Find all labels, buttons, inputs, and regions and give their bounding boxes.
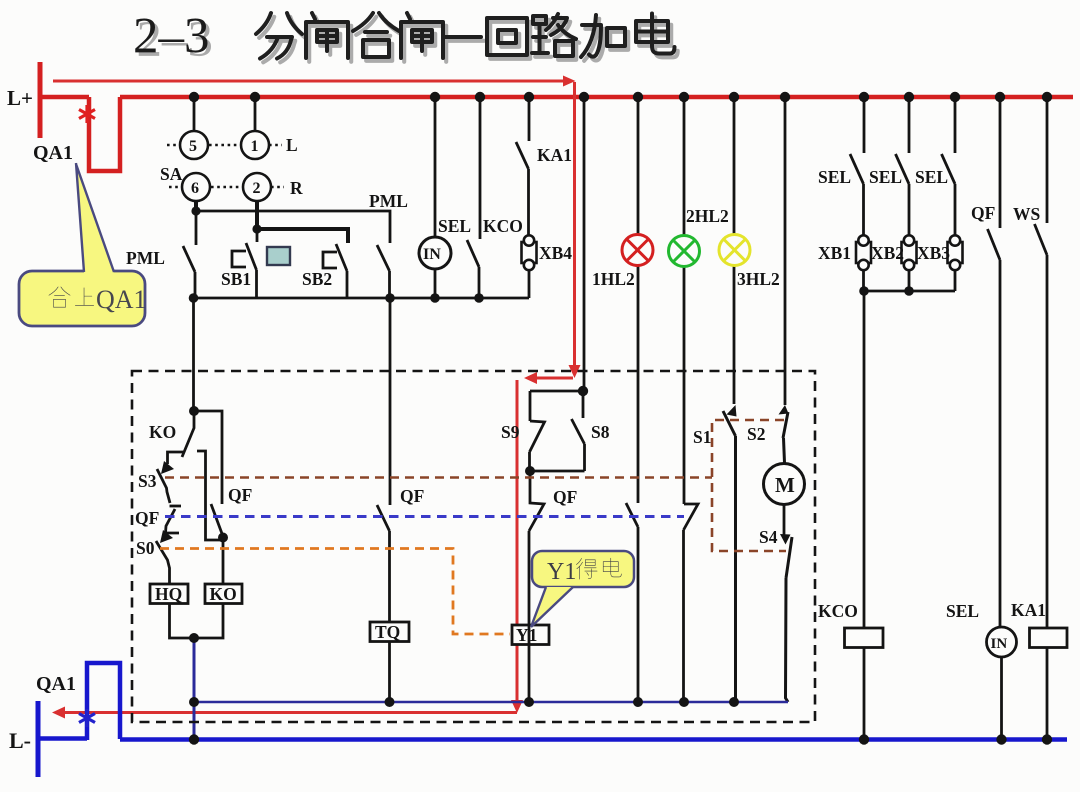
contact QF on 1HL2 branch — [626, 503, 638, 702]
wire red vertical drop x=517 — [516, 380, 519, 700]
breaker QA1 top (open-detour in L+ bus) — [89, 97, 120, 171]
svg-text:QF: QF — [135, 508, 159, 528]
svg-text:L+: L+ — [7, 86, 33, 110]
svg-text:SEL: SEL — [915, 167, 948, 187]
arrowhead S3 latch — [161, 461, 174, 474]
wire L+ red bus left segment — [40, 95, 89, 100]
wire L- blue bus main — [120, 737, 1067, 742]
node dot S9/S8 split — [578, 386, 588, 396]
title text 2-3 (solid with gray shadow) — [133, 9, 213, 69]
wire S2/M branch x=785 — [784, 97, 787, 405]
contact SEL row2 blade — [896, 154, 910, 236]
wire PML1 branch down into box x=194 — [192, 298, 195, 411]
svg-text:S8: S8 — [591, 422, 610, 442]
lamp 1HL2 (red) — [622, 235, 653, 266]
coil KCO — [845, 628, 884, 648]
node dots XB join y=291 — [859, 286, 869, 296]
svg-text:PML: PML — [369, 191, 408, 211]
pushbutton SB2 actuator — [323, 252, 337, 268]
svg-text:SEL: SEL — [946, 601, 979, 621]
svg-text:SB2: SB2 — [302, 269, 332, 289]
svg-text:1: 1 — [251, 138, 259, 155]
svg-text:SEL: SEL — [818, 167, 851, 187]
indicator block (teal) — [267, 247, 290, 265]
contact SB2 blade and leads — [336, 244, 347, 298]
contact QF-NO blade — [211, 504, 223, 538]
wire Y1 bottom lead — [528, 644, 531, 702]
contact SEL row1 blade — [850, 154, 864, 236]
QF fixed bar left chain — [170, 505, 182, 508]
node dot SA6 — [191, 206, 200, 215]
dashed mechanism frame (black) — [132, 371, 815, 722]
svg-text:S3: S3 — [138, 471, 157, 491]
wire SEL row lead 3 — [954, 97, 957, 153]
svg-text:S2: S2 — [747, 424, 765, 444]
svg-text:KO: KO — [149, 422, 176, 442]
contact QF middle zigzag — [529, 471, 544, 625]
contact S3 blade — [157, 469, 170, 503]
wire S8/S9 join y=471 — [530, 470, 585, 473]
svg-text:QF: QF — [553, 487, 577, 507]
wire control bottom bus y=298 — [193, 297, 529, 300]
wire M to S4 lead — [783, 505, 786, 535]
dot leaders SA row2 — [169, 186, 284, 189]
svg-text:HQ: HQ — [155, 584, 182, 604]
contact S1 blade — [723, 411, 736, 702]
svg-text:S4: S4 — [759, 527, 778, 547]
wire branch S9/S8 feeder x=584 — [583, 97, 586, 390]
wire KO coil top lead — [222, 538, 225, 585]
wire SA circle6 bottom lead — [194, 201, 198, 211]
contact S9 zigzag — [530, 421, 545, 471]
svg-text:QA1: QA1 — [36, 673, 76, 695]
callout balloon he-shang-QA1 — [19, 163, 147, 326]
svg-text:2: 2 — [253, 180, 261, 197]
contact PML left blade — [183, 211, 196, 298]
contact PML right blade — [377, 245, 390, 298]
contact SEL1 blade and leads — [467, 97, 480, 298]
svg-text:R: R — [290, 178, 303, 198]
node dots control bus y=298 — [189, 293, 199, 303]
contact QF on TQ branch — [377, 505, 390, 622]
svg-text:KO: KO — [210, 584, 237, 604]
wire XB1 bottom lead — [862, 269, 865, 291]
selector SA contact 2 — [243, 173, 271, 201]
svg-text:KCO: KCO — [483, 216, 523, 236]
wire L- lead — [38, 736, 87, 741]
breaker QA1 bottom (open-detour in L- bus) — [87, 663, 120, 740]
wire red short leftward y=378 — [534, 377, 573, 380]
wire HQ bottom lead — [170, 603, 195, 638]
connector XB4 — [522, 235, 537, 270]
svg-text:QF: QF — [400, 486, 424, 506]
svg-text:QF: QF — [971, 203, 995, 223]
contact QF zigzag on 2HL2 branch — [684, 504, 699, 702]
wire IN1 meter lead from bus — [434, 97, 437, 298]
node dots L- bus — [189, 734, 199, 744]
coil TQ — [370, 622, 409, 642]
wire red return line y=712.5 — [63, 711, 517, 714]
wire SA circle2 bottom lead — [255, 201, 259, 229]
node dot KO coil top — [218, 533, 228, 543]
svg-text:KCO: KCO — [818, 601, 858, 621]
dashed link brown y=477.5 — [165, 476, 712, 479]
wire SEL row lead 1 — [863, 97, 866, 153]
arrowhead red right at x=574 — [563, 76, 576, 87]
wire red energize path top (thin) — [53, 80, 564, 83]
wire L+ terminal bar — [38, 62, 43, 138]
svg-text:SB1: SB1 — [221, 269, 251, 289]
S3 fixed bar with arrowhead stem — [168, 452, 184, 464]
wire red vertical drop x=574.5 — [573, 82, 576, 366]
node dots on L+ bus — [189, 92, 199, 102]
arrowhead red left at (524,378) — [524, 372, 537, 384]
contact QF left chain blade — [166, 509, 176, 533]
contact S0 blade — [156, 541, 170, 584]
wire XB2 bottom lead — [908, 269, 911, 291]
svg-text:Y1: Y1 — [516, 625, 537, 645]
svg-text:Y1: Y1 — [547, 559, 576, 585]
contact S4 blade — [786, 537, 793, 702]
wire SEL row lead 2 — [908, 97, 911, 153]
wire TQ branch x=389.5 — [389, 298, 392, 505]
svg-text:WS: WS — [1013, 204, 1040, 224]
dashed brown subframe around S1 S2 M S4 — [712, 420, 786, 551]
wire KCO coil feeder x=864 — [863, 291, 866, 740]
arrowhead S2 — [779, 405, 789, 415]
svg-text:2–3: 2–3 — [133, 9, 210, 65]
wire IN2 bottom lead — [1000, 657, 1003, 740]
svg-text:IN: IN — [423, 246, 441, 263]
svg-text:SA: SA — [160, 164, 183, 184]
svg-text:6: 6 — [191, 180, 199, 197]
svg-text:3HL2: 3HL2 — [737, 269, 780, 289]
wire XB4 bottom lead — [528, 271, 531, 298]
arrowhead red down at y=375 — [569, 365, 581, 378]
node dot SB branch — [252, 224, 261, 233]
svg-text:QF: QF — [228, 485, 252, 505]
selector SA contact 6 — [182, 173, 210, 201]
connector XB2 — [902, 235, 917, 270]
wire navy collector y=702 — [194, 701, 788, 704]
dashed link blue y=516.5 — [165, 515, 684, 518]
wire lamp 3HL2 branch x=734 — [733, 97, 736, 404]
S0 fixed bar — [166, 533, 179, 536]
wire QF-NO branch top — [194, 411, 222, 504]
selector SA contact 1 — [241, 131, 269, 159]
svg-text:S9: S9 — [501, 422, 520, 442]
node dot HQ/KO join — [189, 633, 199, 643]
arrowhead S0 latch — [160, 530, 173, 543]
wire SA circle1 lead — [254, 97, 257, 131]
svg-text:XB2: XB2 — [871, 243, 904, 263]
svg-text:TQ: TQ — [375, 622, 400, 642]
arrowhead red down at (517,710) — [511, 700, 523, 713]
svg-text:QA1: QA1 — [96, 285, 147, 314]
svg-text:2HL2: 2HL2 — [686, 206, 729, 226]
asterisk red on QA1 top — [79, 105, 95, 123]
arrowhead S4 — [780, 534, 791, 545]
wire XB3 bottom lead — [954, 269, 957, 291]
title CJK fen-zha-he-zha-hui-lu-jia-dian (solid strokes with gray shadow) — [256, 13, 678, 62]
connector XB3 — [948, 235, 963, 270]
wire WS branch x=1047 — [1046, 97, 1049, 223]
contact QF right blade — [988, 229, 1001, 627]
svg-text:PML: PML — [126, 248, 165, 268]
node dots navy collector — [189, 697, 199, 707]
svg-text:S1: S1 — [693, 427, 711, 447]
motor M — [764, 464, 805, 505]
svg-text:XB3: XB3 — [917, 243, 950, 263]
contact KO blade — [182, 411, 194, 457]
wire L+ red bus main — [120, 95, 1073, 100]
svg-text:L-: L- — [9, 728, 31, 753]
coil Y1 — [512, 625, 549, 645]
wire XB join bus y=291 — [864, 290, 955, 293]
svg-text:S0: S0 — [136, 538, 155, 558]
arrowhead S1 — [727, 405, 737, 417]
wire SA circle5 lead — [193, 97, 196, 131]
coil KO — [205, 584, 242, 604]
contact S8 blade — [572, 419, 585, 471]
wire SB branch thick y=229 — [257, 229, 348, 243]
contact SEL row3 blade — [942, 154, 956, 236]
coil KA1 — [1030, 628, 1068, 648]
selector SA contact 5 — [180, 131, 208, 159]
wire horizontal row y=211 to PML2 — [196, 211, 390, 243]
node dot S9 join — [525, 466, 535, 476]
wire middle branch x=205.5 — [197, 451, 223, 540]
svg-text:SEL: SEL — [869, 167, 902, 187]
wire KO-coil bottom lead — [194, 603, 223, 638]
svg-text:QA1: QA1 — [33, 142, 73, 164]
svg-text:1HL2: 1HL2 — [592, 269, 635, 289]
wire lamp 2HL2 branch x=684 — [683, 97, 686, 504]
wire TQ bottom lead — [388, 641, 391, 702]
lamp 3HL2 (yellow) — [719, 235, 750, 266]
dashed link orange S0 to Y1 — [160, 549, 510, 635]
svg-text:M: M — [775, 473, 795, 497]
arrowhead red left at (53,712.5) — [52, 707, 65, 719]
pushbutton SB1 actuator — [232, 251, 246, 267]
contact WS blade — [1035, 224, 1048, 628]
svg-text:IN: IN — [991, 636, 1008, 652]
wire through Y1 coil — [528, 625, 531, 644]
svg-text:KA1: KA1 — [1011, 600, 1046, 620]
wire navy drop from coils x=194 — [193, 638, 196, 740]
connector XB1 — [856, 235, 871, 270]
asterisk blue on QA1 bottom — [79, 709, 95, 727]
wire lamp 1HL2 branch x=638 — [637, 97, 640, 503]
svg-text:L: L — [286, 135, 298, 155]
callout balloon Y1-de-dian — [531, 551, 634, 627]
meter IN1 — [419, 237, 451, 269]
lamp 2HL2 (green) — [669, 236, 700, 267]
svg-text:KA1: KA1 — [537, 145, 572, 165]
node dot KO branch — [189, 406, 199, 416]
wire S9/S8 node split — [530, 390, 583, 421]
wire QF right branch x=1000 — [999, 97, 1002, 228]
contact SB1 blade and leads — [246, 229, 257, 298]
coil HQ — [150, 584, 188, 604]
svg-text:XB4: XB4 — [539, 243, 572, 263]
contact S2 blade — [783, 412, 788, 463]
wire KA1 coil bottom lead — [1046, 647, 1049, 740]
svg-text:5: 5 — [189, 138, 197, 155]
svg-text:XB1: XB1 — [818, 243, 851, 263]
meter IN2 — [987, 627, 1017, 657]
svg-text:SEL: SEL — [438, 216, 471, 236]
wire L- terminal bar — [36, 701, 41, 777]
dot leaders SA row1 — [167, 144, 282, 147]
contact KA1 blade and leads — [516, 97, 529, 235]
